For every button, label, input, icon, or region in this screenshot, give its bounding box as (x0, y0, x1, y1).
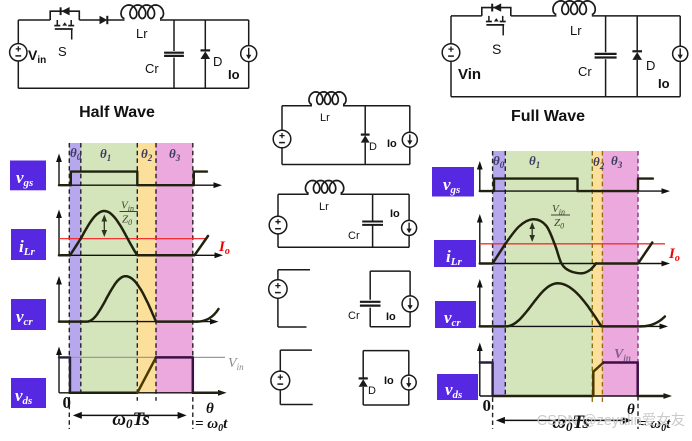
svg-text:= ω0t: = ω0t (195, 416, 228, 434)
wire bottom (282, 164, 410, 166)
gray Vin reference line (59, 356, 225, 358)
open stub with voltage source (280, 349, 312, 351)
v_cr waveform (59, 276, 197, 321)
svg-text:Io: Io (384, 375, 394, 387)
v_ds top during theta3 (156, 357, 222, 392)
band theta0 (69, 143, 81, 393)
svg-text:Lr: Lr (319, 201, 329, 213)
band theta1 (505, 151, 592, 396)
i_Lr waveform (59, 211, 208, 255)
full-wave converter circuit (442, 1, 688, 125)
svg-text:D: D (369, 141, 377, 153)
v_gs label box (10, 161, 46, 191)
svg-text:0: 0 (63, 393, 72, 412)
v_gs axes (479, 167, 481, 191)
svg-text:Half Wave: Half Wave (79, 104, 155, 121)
svg-text:D: D (368, 385, 376, 397)
v_ds jump and ramp in theta2 (593, 363, 603, 397)
i_Lr axes (58, 216, 60, 256)
band theta0 (493, 151, 506, 396)
svg-text:Io: Io (658, 76, 670, 91)
svg-text:Io: Io (387, 138, 397, 150)
svg-text:Full Wave: Full Wave (511, 108, 585, 125)
equivalent circuit stage 4: freewheeling D with Io (271, 350, 416, 405)
wire: top rail left segment (18, 19, 50, 21)
wire: top rail left segment (451, 15, 482, 17)
svg-text:CSDN @zeyalin爱女友: CSDN @zeyalin爱女友 (537, 411, 685, 429)
svg-text:Cr: Cr (145, 61, 159, 76)
current source Io (408, 194, 410, 220)
current source Io (370, 270, 410, 272)
svg-text:Io: Io (386, 311, 396, 323)
capacitor Cr branch (372, 194, 374, 221)
svg-text:Io: Io (390, 208, 400, 220)
voltage source Vin (17, 20, 19, 44)
omega0 Ts span arrow (80, 414, 180, 416)
equivalent circuit stage 3: Cr discharges into Io (269, 270, 418, 327)
i_Lr label box (11, 229, 46, 260)
v_ds waveform (59, 357, 70, 392)
dashed boundary lines (68, 143, 70, 429)
svg-text:D: D (646, 58, 655, 73)
v_cr axes (479, 285, 481, 326)
wire: bottom rail (451, 96, 680, 98)
inductor Lr (278, 193, 309, 195)
v_cr next-cycle hook (197, 309, 219, 322)
inductor Lr (553, 1, 595, 15)
v_gs axes (58, 160, 60, 186)
MOSFET switch S with body diode (482, 8, 511, 16)
wire: top rail right segment (592, 15, 680, 17)
wire: top rail right segment (160, 19, 249, 21)
MOSFET switch S with body diode (50, 11, 79, 20)
series diode (100, 16, 108, 24)
half-wave converter circuit (10, 5, 257, 121)
diode D branch (362, 351, 364, 379)
v_ds axes (479, 349, 481, 397)
omega0 Ts span arrow (503, 419, 625, 421)
red output current line (480, 243, 665, 245)
band theta2 (592, 151, 602, 396)
dashed boundary lines (492, 151, 494, 429)
voltage source (277, 194, 279, 216)
inductor Lr (121, 5, 164, 19)
svg-text:Cr: Cr (578, 64, 592, 79)
wire: diode to inductor (107, 19, 124, 21)
wire bottom (278, 246, 409, 248)
v_ds waveform (480, 363, 493, 397)
current source Io branch (679, 16, 681, 46)
v_cr next-cycle hook (641, 317, 665, 327)
diode D branch (364, 106, 366, 135)
current source Io (363, 350, 409, 352)
v_gs waveform (59, 172, 207, 186)
svg-text:Io: Io (228, 67, 240, 82)
voltage source (281, 106, 283, 131)
v_ds label box (11, 378, 46, 408)
band theta1 (81, 143, 138, 393)
i_Lr label box (434, 240, 476, 267)
wire bottom (370, 326, 410, 328)
i_Lr axes (479, 220, 481, 264)
v_cr axes (58, 282, 60, 322)
voltage source Vin (450, 16, 452, 44)
v_ds top during theta3 (604, 363, 638, 397)
amplitude double arrow (531, 227, 533, 237)
inductor Lr (282, 105, 312, 107)
svg-text:θ: θ (206, 401, 214, 417)
current source Io (409, 106, 411, 133)
band theta3 (156, 143, 193, 393)
wire: bottom rail (18, 87, 248, 89)
v_cr label box (435, 301, 476, 328)
v_gs label box (432, 167, 474, 197)
svg-text:Cr: Cr (348, 310, 360, 322)
i_Lr waveform full-wave (480, 244, 506, 264)
equivalent circuit stage 2: Vin, Lr, Cr, Io (269, 181, 416, 248)
wire: between switch and diode (79, 19, 99, 21)
wire top (341, 193, 410, 195)
v_ds label box (437, 374, 478, 400)
svg-text:S: S (492, 41, 501, 57)
wire: switch to inductor (511, 15, 557, 17)
v_gs waveform (480, 179, 653, 192)
svg-text:Cr: Cr (348, 230, 360, 242)
svg-text:Lr: Lr (570, 23, 582, 38)
band theta3 (602, 151, 638, 396)
svg-text:Lr: Lr (136, 26, 148, 41)
capacitor Cr branch (369, 271, 371, 300)
diode D branch (204, 20, 206, 50)
current source Io branch (248, 20, 250, 46)
svg-text:S: S (58, 44, 67, 59)
diode D branch (636, 16, 638, 51)
amplitude double arrow (103, 220, 105, 233)
open stub with voltage source (278, 269, 310, 271)
equivalent circuit stage 1: Vin, Lr, D, Io (273, 92, 417, 165)
wire top (343, 105, 410, 107)
v_ds ramp in theta2 (137, 357, 156, 392)
capacitor Cr branch (605, 16, 607, 52)
wire bottom (363, 404, 409, 406)
svg-text:Lr: Lr (320, 112, 330, 124)
capacitor Cr branch (173, 20, 175, 51)
v_ds axes (58, 353, 60, 393)
svg-text:Vin: Vin (458, 66, 481, 83)
svg-text:D: D (213, 54, 222, 69)
v_cr label box (11, 299, 46, 330)
svg-text:0: 0 (483, 396, 492, 415)
band theta2 (137, 143, 156, 393)
v_cr waveform (480, 283, 641, 326)
red output current line (59, 238, 206, 240)
